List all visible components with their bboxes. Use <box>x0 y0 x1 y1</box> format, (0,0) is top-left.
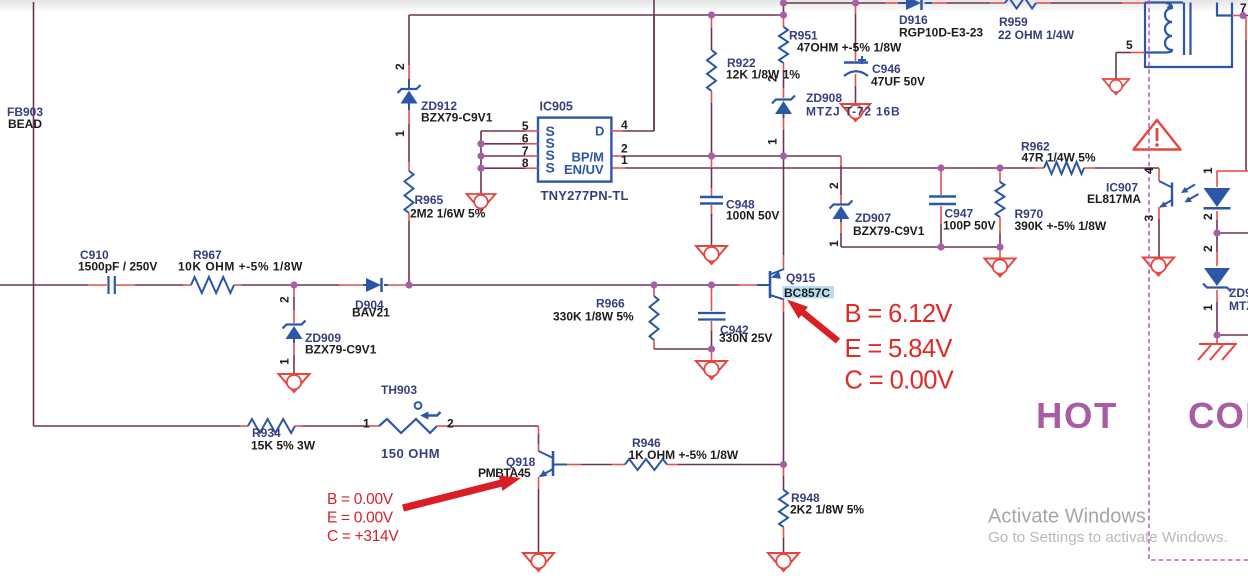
svg-text:Q915: Q915 <box>786 271 816 285</box>
svg-text:MTZJ: MTZJ <box>1229 299 1248 313</box>
svg-text:1: 1 <box>827 240 841 247</box>
svg-text:D: D <box>595 124 604 139</box>
svg-text:5: 5 <box>1126 38 1133 52</box>
svg-text:BZX79-C9V1: BZX79-C9V1 <box>421 111 493 125</box>
svg-text:2: 2 <box>1201 213 1215 220</box>
svg-text:EL817MA: EL817MA <box>1087 192 1141 206</box>
svg-text:1: 1 <box>393 130 407 137</box>
svg-text:C = +314V: C = +314V <box>327 528 399 545</box>
svg-text:2: 2 <box>1201 245 1215 252</box>
svg-text:150 OHM: 150 OHM <box>381 446 440 461</box>
svg-text:E = 0.00V: E = 0.00V <box>327 510 394 527</box>
svg-text:HOT: HOT <box>1036 395 1118 436</box>
svg-text:390K +-5% 1/8W: 390K +-5% 1/8W <box>1015 219 1107 233</box>
svg-text:330N 25V: 330N 25V <box>719 331 772 345</box>
svg-text:15K 5% 3W: 15K 5% 3W <box>251 439 316 453</box>
svg-text:ZD91: ZD91 <box>1229 286 1248 300</box>
svg-text:22 OHM 1/4W: 22 OHM 1/4W <box>998 28 1075 42</box>
svg-text:S: S <box>546 159 555 175</box>
svg-text:47OHM +-5% 1/8W: 47OHM +-5% 1/8W <box>797 41 902 55</box>
svg-text:1: 1 <box>1201 304 1215 311</box>
svg-text:EN/UV: EN/UV <box>564 162 604 177</box>
svg-text:2: 2 <box>278 296 292 303</box>
svg-text:IC905: IC905 <box>540 100 573 114</box>
svg-text:4: 4 <box>621 118 628 132</box>
svg-text:7: 7 <box>1240 1 1247 15</box>
svg-text:100P 50V: 100P 50V <box>943 219 996 233</box>
svg-text:2K2 1/8W 5%: 2K2 1/8W 5% <box>790 503 864 517</box>
svg-text:TH903: TH903 <box>381 383 417 397</box>
svg-text:B = 0.00V: B = 0.00V <box>327 491 394 508</box>
svg-text:E = 5.84V: E = 5.84V <box>845 335 953 363</box>
svg-text:47R 1/4W 5%: 47R 1/4W 5% <box>1022 151 1096 165</box>
svg-text:ZD907: ZD907 <box>855 211 891 225</box>
svg-text:MTZJ T-72 16B: MTZJ T-72 16B <box>806 105 900 119</box>
svg-text:1K OHM +-5% 1/8W: 1K OHM +-5% 1/8W <box>629 448 739 462</box>
svg-text:1: 1 <box>766 138 780 145</box>
svg-text:1: 1 <box>1201 167 1215 174</box>
svg-text:RGP10D-E3-23: RGP10D-E3-23 <box>899 26 983 40</box>
svg-text:R965: R965 <box>415 193 444 207</box>
svg-text:BAV21: BAV21 <box>352 306 390 320</box>
svg-text:R966: R966 <box>596 297 625 311</box>
svg-text:47UF 50V: 47UF 50V <box>871 75 925 89</box>
svg-text:ZD908: ZD908 <box>806 91 842 105</box>
svg-text:C = 0.00V: C = 0.00V <box>845 367 954 395</box>
svg-text:3: 3 <box>1142 215 1156 222</box>
svg-text:BZX79-C9V1: BZX79-C9V1 <box>305 343 377 357</box>
svg-text:2: 2 <box>766 75 780 82</box>
svg-text:1500pF / 250V: 1500pF / 250V <box>78 260 157 274</box>
svg-text:2M2 1/6W 5%: 2M2 1/6W 5% <box>410 207 486 221</box>
svg-text:BEAD: BEAD <box>8 117 42 131</box>
svg-text:100N 50V: 100N 50V <box>726 209 779 223</box>
svg-text:BZX79-C9V1: BZX79-C9V1 <box>853 224 925 238</box>
svg-text:8: 8 <box>522 156 529 170</box>
svg-text:12K 1/8W 1%: 12K 1/8W 1% <box>726 68 800 82</box>
svg-text:2: 2 <box>447 417 454 431</box>
svg-text:1: 1 <box>621 153 628 167</box>
svg-text:10K OHM +-5% 1/8W: 10K OHM +-5% 1/8W <box>178 260 303 274</box>
svg-text:BC857C: BC857C <box>784 286 830 300</box>
svg-text:TNY277PN-TL: TNY277PN-TL <box>541 188 629 203</box>
svg-text:B = 6.12V: B = 6.12V <box>845 300 953 328</box>
svg-text:2: 2 <box>827 182 841 189</box>
svg-text:2: 2 <box>393 63 407 70</box>
svg-text:330K 1/8W 5%: 330K 1/8W 5% <box>553 310 634 324</box>
svg-text:COLD: COLD <box>1188 395 1248 436</box>
svg-text:1: 1 <box>363 417 370 431</box>
svg-text:Activate Windows: Activate Windows <box>988 506 1146 528</box>
svg-text:Go to Settings to activate Win: Go to Settings to activate Windows. <box>988 529 1228 546</box>
svg-text:R959: R959 <box>999 15 1028 29</box>
svg-text:1: 1 <box>278 358 292 365</box>
svg-text:4: 4 <box>1142 167 1156 174</box>
